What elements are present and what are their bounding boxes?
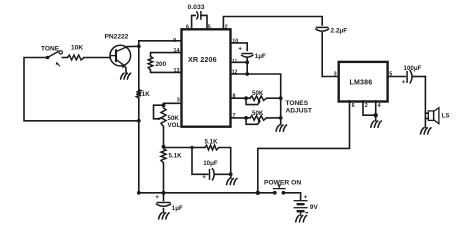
wire: speaker to ground [424, 118, 426, 127]
loudspeaker LS [428, 108, 449, 124]
svg-text:6: 6 [352, 103, 355, 109]
node: pins 2/4 junction [374, 113, 378, 117]
svg-text:XR 2206: XR 2206 [188, 55, 217, 64]
wire: to loudspeaker [425, 77, 428, 114]
wire: pin 2 output to coupling cap [223, 17, 322, 30]
svg-text:5: 5 [208, 25, 211, 31]
svg-text:PN2222: PN2222 [105, 34, 129, 41]
svg-text:2: 2 [225, 25, 228, 31]
capacitor 100uF [402, 65, 426, 86]
node: pot bottom / bias node [162, 145, 166, 149]
svg-text:+: + [202, 174, 206, 181]
switch POWER ON (pushbutton) [264, 180, 301, 195]
battery 9V [294, 194, 319, 215]
node: rail junction at bias cap [161, 191, 165, 195]
wire: pin 11 [231, 61, 248, 63]
capacitor 1uF (rail bypass) [155, 193, 183, 213]
ground (emitter) [125, 68, 127, 73]
svg-text:1K: 1K [142, 91, 150, 98]
resistor 10K [62, 45, 110, 60]
ground (battery) [296, 215, 307, 222]
resistor 200 (pins 13-14) [148, 53, 181, 73]
svg-text:+: + [238, 46, 242, 53]
ground (RC network) [230, 174, 232, 178]
potentiometer 50K (pin 8) [231, 90, 283, 104]
svg-text:6: 6 [186, 25, 189, 31]
pin labels XR2206 top [186, 25, 228, 31]
svg-text:50K: 50K [252, 110, 264, 117]
svg-text:10K: 10K [71, 45, 83, 52]
potentiometer 50K (pin 7) [231, 110, 283, 124]
svg-text:10μF: 10μF [203, 160, 218, 167]
svg-text:LS: LS [442, 114, 450, 120]
node: pin 12 junction [245, 72, 249, 76]
svg-text:50K: 50K [168, 115, 180, 122]
svg-text:VOL: VOL [168, 122, 181, 129]
node: RC ground node [229, 172, 233, 176]
svg-text:9V: 9V [310, 204, 319, 211]
wire: pin 3 [164, 103, 182, 105]
transistor Q1 PN2222 [105, 34, 131, 69]
wire: pin 12 to ground rail [231, 74, 281, 125]
svg-text:0.033: 0.033 [188, 4, 205, 11]
svg-text:5.1K: 5.1K [205, 139, 219, 146]
node: pin 11 junction [245, 60, 249, 64]
svg-text:100μF: 100μF [404, 65, 422, 72]
svg-text:+: + [402, 79, 406, 86]
wire: TONE switch left loop [24, 58, 139, 121]
resistor 5.1K (horizontal) [192, 139, 231, 175]
ground (pin 12 / tone pots) [276, 125, 287, 131]
ground (loudspeaker) [421, 128, 432, 134]
wire + resistor 1K (vertical) [138, 46, 140, 89]
svg-text:1μF: 1μF [172, 205, 183, 212]
svg-text:200: 200 [156, 61, 167, 68]
node: pot top [162, 103, 166, 107]
node: rail left corner [137, 191, 141, 195]
svg-text:9: 9 [173, 38, 176, 44]
switch TONE [41, 46, 62, 67]
wire: pins 2,4 to ground [363, 101, 376, 115]
svg-text:2: 2 [365, 103, 368, 109]
potentiometer 50K VOL (pin 3) [154, 105, 181, 146]
wire: pin 5 output [388, 76, 406, 78]
pin labels XR2206 left [173, 38, 180, 103]
wire: resistor 5.1K + capacitor 10uF bias network [164, 147, 193, 149]
svg-text:TONE: TONE [41, 46, 60, 53]
svg-text:2.2μF: 2.2μF [331, 27, 348, 34]
node: rail / LM386 supply junction [256, 191, 260, 195]
pin labels XR2206 right [232, 38, 239, 119]
capacitor 2.2uF [315, 27, 347, 76]
capacitor 1uF (pin 10 bypass) [238, 46, 266, 74]
ground (LM386 pins 2,4) [371, 121, 382, 127]
svg-text:ADJUST: ADJUST [286, 108, 312, 115]
capacitor 10uF [192, 148, 231, 182]
svg-text:TONES: TONES [286, 100, 309, 107]
svg-text:POWER ON: POWER ON [264, 180, 301, 187]
IC U1 XR2206 [182, 29, 231, 126]
wire: +9V power rail [139, 192, 275, 194]
wire: collector to junction [127, 45, 139, 47]
wire: pin 10 bypass [231, 43, 248, 50]
svg-text:50K: 50K [252, 90, 264, 97]
IC U2 LM386 [339, 62, 388, 102]
svg-text:1μF: 1μF [255, 53, 266, 60]
capacitor 0.033 (pins 5-6) [188, 4, 208, 29]
svg-text:5.1K: 5.1K [169, 153, 183, 160]
node: left loop junction [137, 119, 141, 123]
pin labels LM386 [334, 71, 393, 109]
node: collector / pin 9 junction [137, 44, 141, 48]
ground (rail bypass cap) [159, 213, 170, 219]
node: RC corner [190, 146, 193, 149]
wire: LM386 pin 6 supply [258, 101, 350, 193]
svg-text:+: + [155, 194, 159, 201]
svg-text:LM386: LM386 [350, 79, 373, 86]
wire: pin 9 of XR2206 [139, 41, 182, 47]
svg-text:3: 3 [334, 71, 337, 77]
label TONES ADJUST [286, 100, 312, 115]
svg-text:4: 4 [378, 103, 381, 109]
resistor 5.1K (vertical, to +9V rail) [161, 147, 182, 193]
svg-text:+: + [304, 194, 308, 201]
